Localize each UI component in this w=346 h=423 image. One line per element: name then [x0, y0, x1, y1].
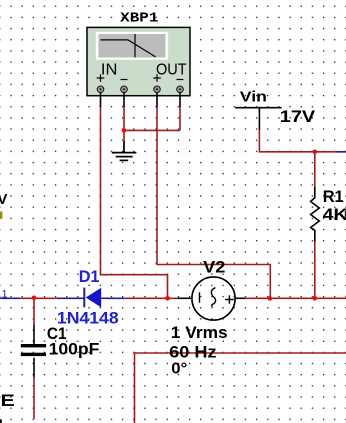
svg-text:E: E	[1, 391, 15, 410]
svg-text:V: V	[0, 191, 7, 208]
svg-text:D1: D1	[79, 267, 100, 286]
svg-text:60 Hz: 60 Hz	[169, 342, 216, 361]
svg-text:17V: 17V	[280, 107, 315, 126]
svg-text:V2: V2	[203, 257, 225, 276]
svg-text:4K: 4K	[323, 205, 346, 224]
svg-text:0°: 0°	[171, 360, 187, 377]
svg-text:Vin: Vin	[240, 88, 267, 105]
svg-text:100pF: 100pF	[49, 339, 100, 358]
svg-text:XBP1: XBP1	[120, 11, 158, 26]
svg-text:1: 1	[2, 288, 8, 300]
svg-text:OUT: OUT	[156, 62, 187, 79]
svg-text:IN: IN	[101, 62, 118, 79]
svg-text:R1: R1	[323, 187, 344, 206]
svg-text:1 Vrms: 1 Vrms	[171, 323, 228, 342]
